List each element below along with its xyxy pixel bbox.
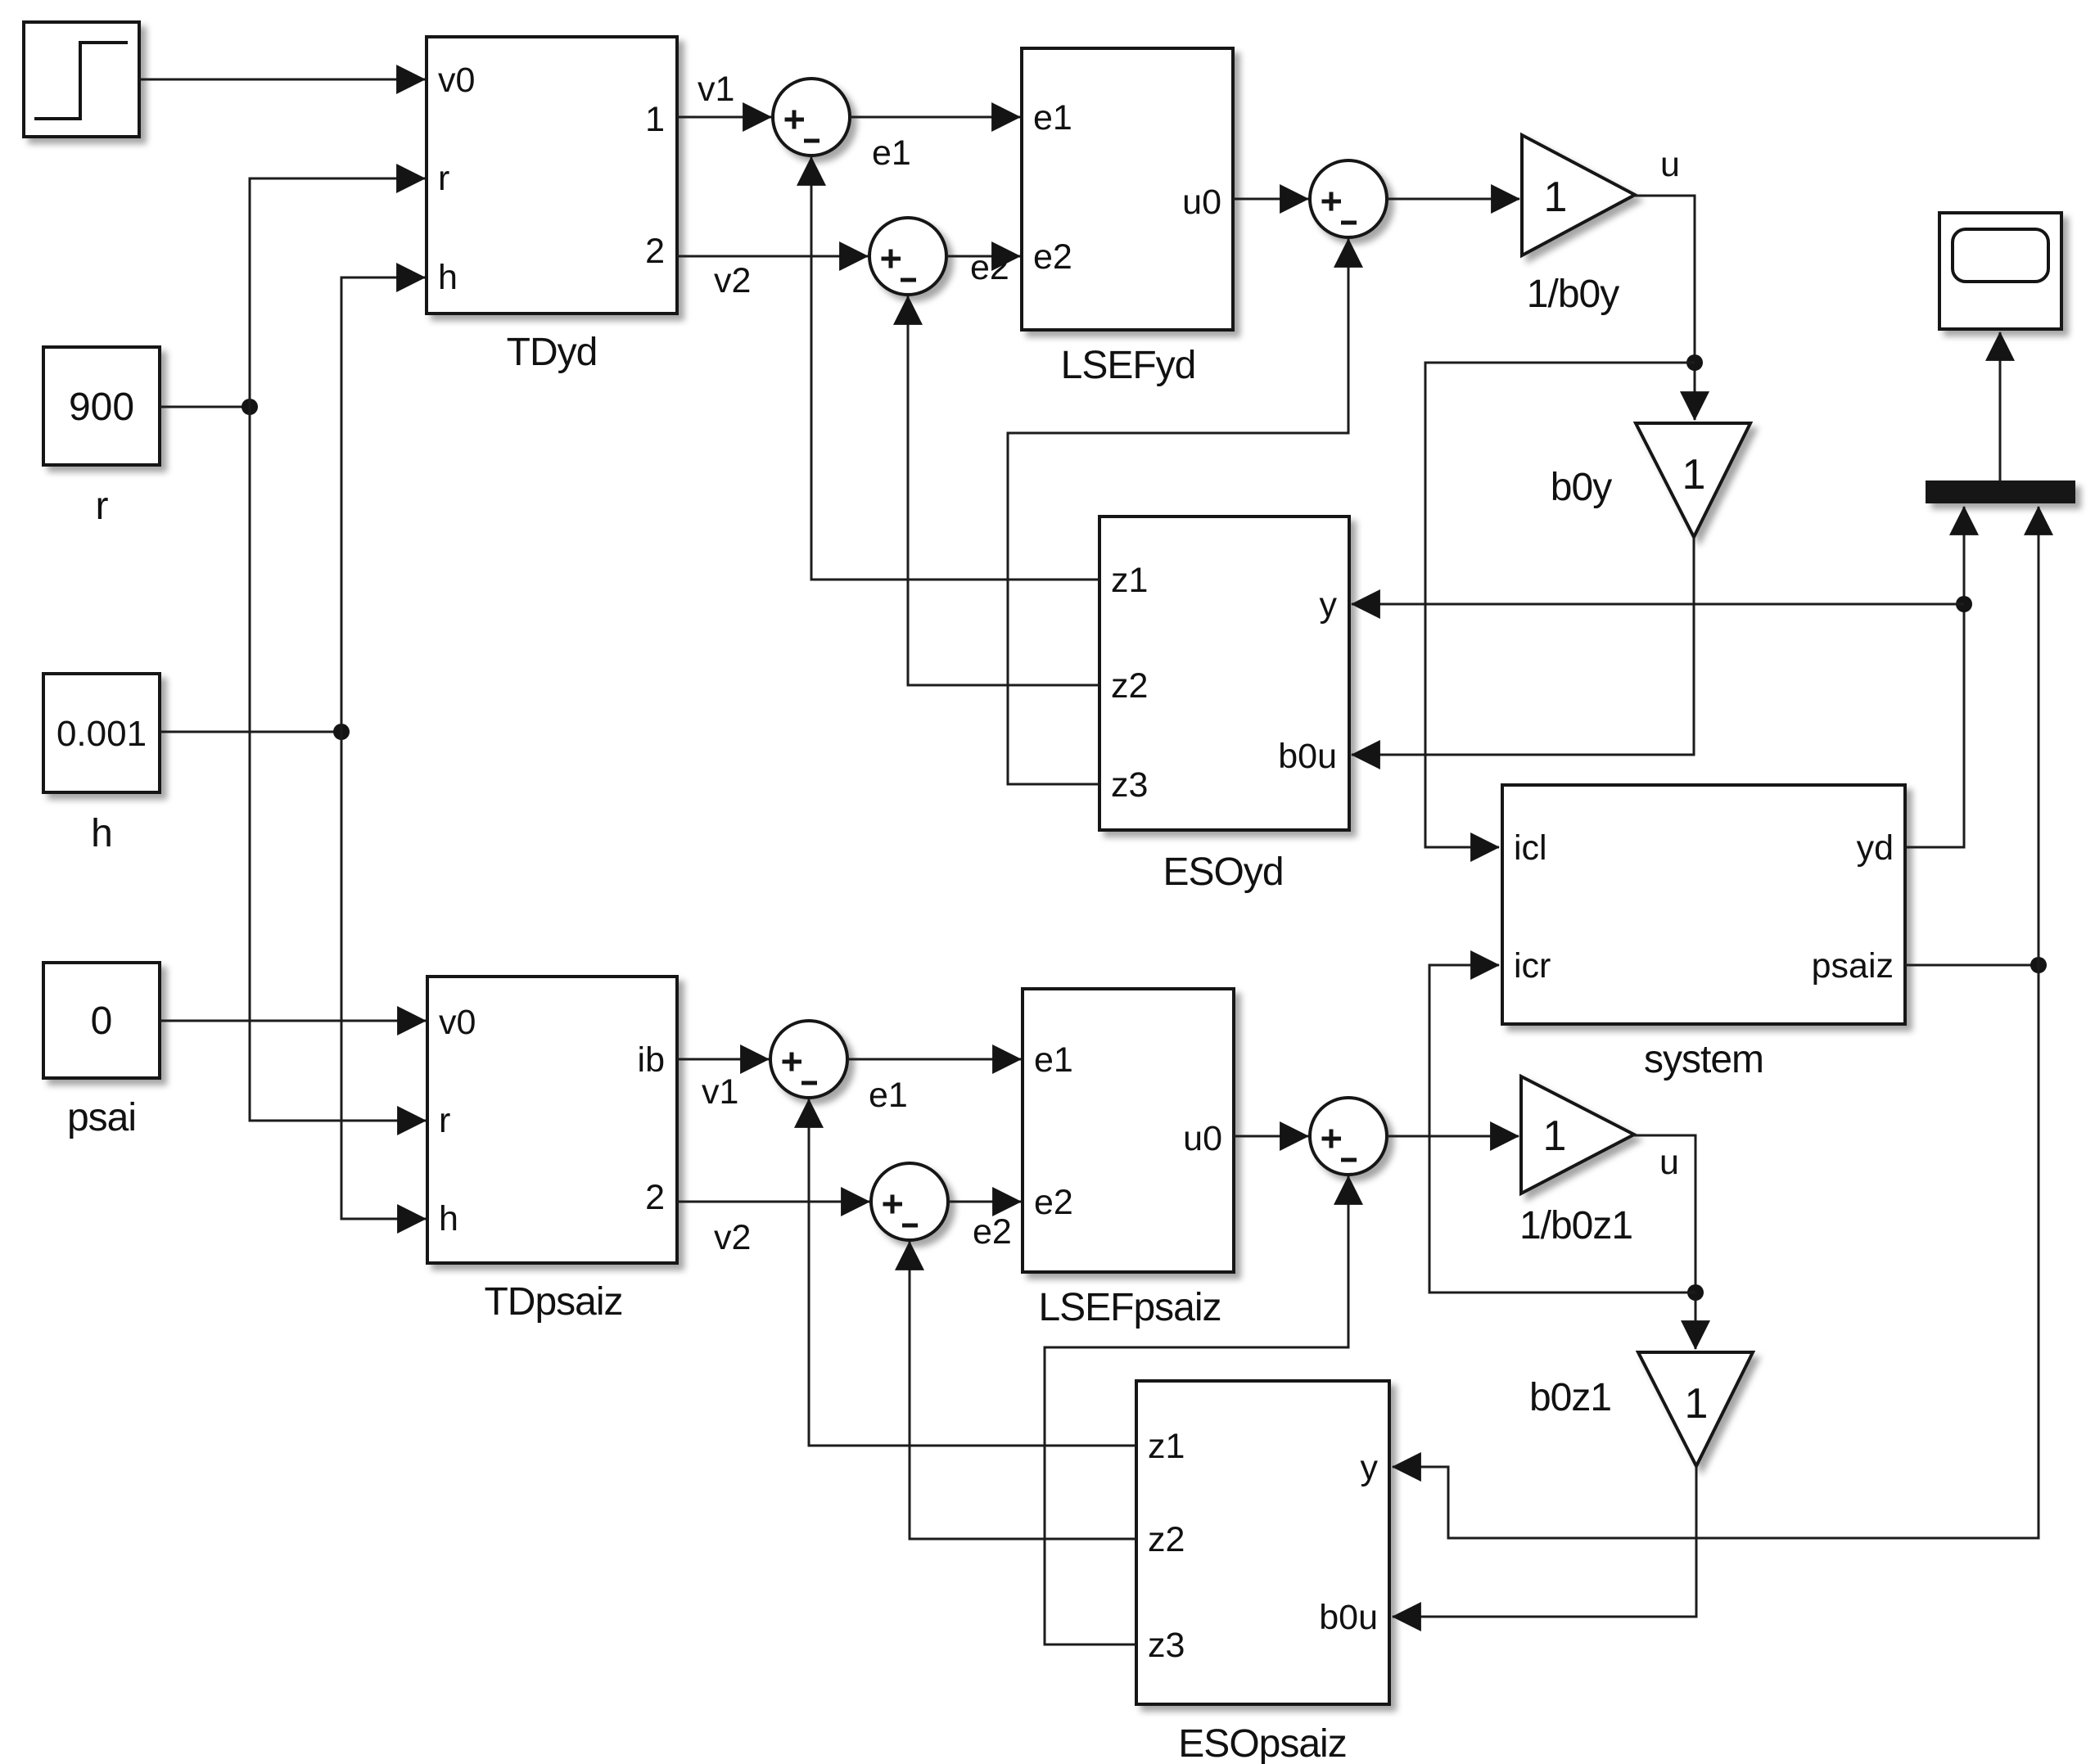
wire ESOyd z2 to S2 xyxy=(908,296,1099,685)
wire u to system icr xyxy=(1429,965,1695,1293)
constant psai=0 xyxy=(43,963,160,1078)
svg-text:e2: e2 xyxy=(1034,1183,1073,1222)
svg-text:v0: v0 xyxy=(438,61,475,100)
wire b0y to ESOyd b0u xyxy=(1352,537,1694,755)
svg-text:900: 900 xyxy=(69,386,134,429)
svg-text:r: r xyxy=(96,485,109,528)
svg-text:LSEFpsaiz: LSEFpsaiz xyxy=(1038,1286,1221,1329)
svg-text:r: r xyxy=(438,159,449,198)
node u-branch xyxy=(1686,354,1703,371)
svg-text:z1: z1 xyxy=(1111,561,1148,600)
wire psaiz to mux xyxy=(2038,507,2040,965)
wire mux to scope xyxy=(1999,332,2002,480)
svg-text:e1: e1 xyxy=(872,133,911,173)
svg-text:r: r xyxy=(439,1101,450,1140)
wire b0z1 to ESOpsaiz b0u xyxy=(1393,1466,1696,1617)
subsystem LSEFyd xyxy=(1022,48,1233,330)
wire h to TDyd h xyxy=(341,277,425,732)
wire r to TDyd r xyxy=(250,178,425,407)
svg-text:1: 1 xyxy=(1544,174,1568,221)
subsystem TDyd xyxy=(427,37,677,314)
svg-text:b0u: b0u xyxy=(1278,737,1337,776)
svg-text:z3: z3 xyxy=(1148,1626,1185,1665)
svg-text:2: 2 xyxy=(645,232,665,271)
wire 900 output xyxy=(160,406,250,408)
wire system psaiz output xyxy=(1905,964,2039,967)
sum junction S6 (u0-z3 lower) xyxy=(1310,1098,1387,1175)
wire ESOpsaiz z2 to S5 xyxy=(910,1242,1136,1539)
sum junction S4 (v1-z1 lower) xyxy=(770,1021,847,1098)
svg-text:LSEFyd: LSEFyd xyxy=(1061,344,1196,387)
svg-text:e2: e2 xyxy=(973,1212,1012,1252)
wire TDpsaiz ib v1 to S4 xyxy=(677,1058,769,1061)
svg-text:psai: psai xyxy=(67,1096,136,1139)
sum junction S3 (u0-z3) xyxy=(1310,160,1387,237)
wire step to TDyd v0 xyxy=(139,79,425,81)
wire LSEFpsaiz u0 to S6 xyxy=(1234,1135,1308,1138)
subsystem TDpsaiz xyxy=(427,977,677,1263)
wire TDpsaiz out2 v2 to S5 xyxy=(677,1201,869,1203)
wire psaiz to ESOpsaiz y xyxy=(1393,965,2039,1538)
svg-text:icl: icl xyxy=(1514,828,1547,868)
svg-text:h: h xyxy=(91,812,112,855)
svg-text:u0: u0 xyxy=(1183,1119,1222,1158)
svg-text:e2: e2 xyxy=(970,248,1009,287)
svg-text:e1: e1 xyxy=(1033,98,1072,138)
wire h to TDpsaiz h xyxy=(341,732,426,1219)
wire S3 to gain 1/b0y xyxy=(1387,198,1519,201)
svg-text:h: h xyxy=(438,258,458,297)
node u2-branch xyxy=(1687,1284,1704,1301)
wire psai to TDpsaiz v0 xyxy=(160,1020,426,1022)
svg-text:z2: z2 xyxy=(1111,666,1148,706)
svg-text:psaiz: psaiz xyxy=(1812,946,1894,986)
constant h=0.001 xyxy=(43,674,160,792)
svg-text:b0u: b0u xyxy=(1319,1598,1378,1637)
wire S2 e2 to LSEFyd xyxy=(946,255,1020,258)
wire S5 e2 to LSEFpsaiz xyxy=(948,1201,1021,1203)
wire S4 e1 to LSEFpsaiz xyxy=(847,1058,1021,1061)
svg-text:0: 0 xyxy=(91,999,113,1043)
sum junction S2 (v2-z2) xyxy=(869,218,946,295)
svg-text:v2: v2 xyxy=(714,261,751,300)
svg-text:h: h xyxy=(439,1199,458,1238)
svg-text:ESOyd: ESOyd xyxy=(1163,850,1283,894)
wire u to system icl xyxy=(1425,363,1695,847)
svg-text:v1: v1 xyxy=(698,70,734,109)
wire ESOyd z3 to S3 xyxy=(1008,239,1348,784)
constant r=900 xyxy=(43,347,160,465)
gain 1/b0y xyxy=(1522,135,1635,255)
svg-text:1: 1 xyxy=(1685,1380,1709,1428)
svg-text:1: 1 xyxy=(1682,451,1706,499)
wire yd to ESOyd y xyxy=(1352,603,1964,606)
wire ESOyd z1 to S1 xyxy=(811,157,1099,580)
wire r to TDpsaiz r xyxy=(250,407,426,1121)
node yd-branch xyxy=(1956,596,1972,612)
svg-text:z1: z1 xyxy=(1148,1427,1185,1466)
svg-text:2: 2 xyxy=(645,1178,665,1217)
gain 1/b0z1 xyxy=(1521,1076,1634,1193)
svg-text:u0: u0 xyxy=(1182,183,1221,222)
svg-text:y: y xyxy=(1320,585,1338,625)
svg-text:z2: z2 xyxy=(1148,1520,1185,1559)
svg-text:ib: ib xyxy=(638,1040,665,1080)
svg-text:e1: e1 xyxy=(869,1076,908,1115)
subsystem LSEFpsaiz xyxy=(1023,989,1234,1272)
svg-text:e2: e2 xyxy=(1033,237,1072,277)
svg-text:icr: icr xyxy=(1514,946,1551,986)
svg-text:yd: yd xyxy=(1857,828,1894,868)
svg-text:v0: v0 xyxy=(439,1003,476,1042)
wire TDyd out2 v2 to S2 xyxy=(677,255,868,258)
svg-text:e1: e1 xyxy=(1034,1040,1073,1080)
wire u to gain b0y xyxy=(1635,196,1695,420)
wire ESOpsaiz z3 to S6 xyxy=(1045,1176,1348,1644)
svg-text:1/b0z1: 1/b0z1 xyxy=(1519,1204,1632,1247)
wire TDyd out1 v1 to S1 xyxy=(677,116,771,119)
node psaiz-branch xyxy=(2030,957,2047,973)
sum junction S1 (v1-z1) xyxy=(773,79,850,156)
wire LSEFyd u0 to S3 xyxy=(1233,198,1308,201)
subsystem ESOpsaiz xyxy=(1136,1381,1389,1704)
wire S6 to gain 1/b0z1 xyxy=(1387,1135,1519,1138)
svg-text:y: y xyxy=(1361,1448,1379,1487)
wire 0.001 output xyxy=(160,731,341,733)
svg-text:1: 1 xyxy=(645,100,665,139)
svg-text:TDyd: TDyd xyxy=(507,331,598,374)
subsystem ESOyd xyxy=(1099,517,1349,830)
svg-text:system: system xyxy=(1644,1038,1763,1081)
svg-text:1: 1 xyxy=(1543,1112,1567,1160)
svg-text:TDpsaiz: TDpsaiz xyxy=(484,1280,622,1324)
gain b0y (down) xyxy=(1636,423,1750,537)
wire ESOpsaiz z1 to S4 xyxy=(809,1099,1136,1446)
sum junction S5 (v2-z2 lower) xyxy=(871,1163,948,1240)
svg-text:z3: z3 xyxy=(1111,765,1148,805)
mux bar xyxy=(1926,480,2075,503)
svg-text:v2: v2 xyxy=(714,1218,751,1257)
wire system yd to mux xyxy=(1905,507,1964,847)
svg-text:1/b0y: 1/b0y xyxy=(1527,273,1619,316)
svg-text:ESOpsaiz: ESOpsaiz xyxy=(1178,1722,1346,1764)
subsystem system xyxy=(1502,785,1905,1024)
svg-text:v1: v1 xyxy=(702,1072,738,1112)
svg-text:u: u xyxy=(1660,145,1680,184)
svg-text:u: u xyxy=(1659,1143,1679,1182)
node h-branch xyxy=(333,724,350,740)
wire u to gain b0z1 xyxy=(1634,1135,1695,1349)
svg-text:0.001: 0.001 xyxy=(56,714,147,754)
step source block xyxy=(24,22,139,137)
scope xyxy=(1939,213,2061,329)
gain b0z1 (down) xyxy=(1638,1352,1753,1466)
svg-text:b0z1: b0z1 xyxy=(1529,1376,1611,1419)
wire S1 e1 to LSEFyd xyxy=(850,116,1020,119)
svg-text:b0y: b0y xyxy=(1551,466,1612,509)
node r-branch xyxy=(242,399,258,415)
